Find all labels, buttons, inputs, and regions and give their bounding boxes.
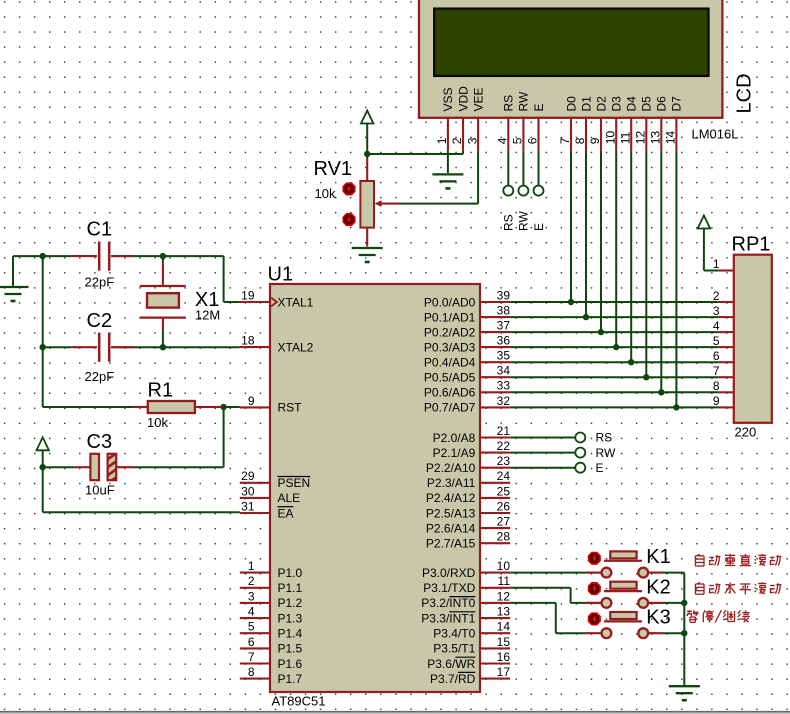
svg-text:4: 4: [496, 137, 510, 144]
svg-text:2: 2: [450, 137, 464, 144]
svg-text:21: 21: [497, 424, 511, 438]
svg-text:10: 10: [603, 131, 617, 145]
svg-text:P3.2/INT0: P3.2/INT0: [421, 596, 475, 610]
svg-text:RW: RW: [517, 211, 531, 231]
svg-text:26: 26: [497, 499, 511, 513]
svg-text:D5: D5: [640, 96, 654, 112]
svg-text:P0.0/AD0: P0.0/AD0: [424, 295, 476, 309]
svg-text:C1: C1: [87, 219, 113, 241]
svg-text:6: 6: [713, 349, 720, 363]
svg-text:10k: 10k: [147, 415, 168, 430]
svg-text:P1.0: P1.0: [278, 566, 303, 580]
svg-text:RS: RS: [596, 431, 613, 445]
svg-text:12: 12: [497, 589, 511, 603]
svg-text:D4: D4: [625, 96, 639, 112]
svg-text:35: 35: [497, 349, 511, 363]
svg-text:AT89C51: AT89C51: [272, 693, 326, 708]
svg-text:29: 29: [241, 469, 255, 483]
svg-text:XTAL2: XTAL2: [278, 340, 314, 354]
svg-text:P1.1: P1.1: [278, 581, 303, 595]
svg-text:39: 39: [497, 288, 511, 302]
svg-text:C2: C2: [87, 310, 113, 332]
svg-text:PSEN: PSEN: [278, 476, 311, 490]
svg-text:2: 2: [248, 574, 255, 588]
svg-text:P3.5/T1: P3.5/T1: [433, 642, 475, 656]
svg-text:14: 14: [497, 620, 511, 634]
svg-text:P3.4/T0: P3.4/T0: [433, 627, 475, 641]
svg-text:19: 19: [241, 288, 255, 302]
svg-text:15: 15: [497, 635, 511, 649]
svg-text:34: 34: [497, 364, 511, 378]
svg-text:LCD: LCD: [733, 73, 755, 113]
svg-text:1: 1: [713, 257, 720, 271]
svg-text:D0: D0: [564, 96, 578, 112]
svg-text:10: 10: [497, 559, 511, 573]
svg-text:P3.6/WR: P3.6/WR: [427, 657, 475, 671]
svg-text:7: 7: [713, 364, 720, 378]
svg-text:11: 11: [498, 574, 511, 588]
svg-text:P0.5/AD5: P0.5/AD5: [424, 371, 476, 385]
svg-text:P3.7/RD: P3.7/RD: [430, 672, 476, 686]
svg-text:33: 33: [497, 379, 511, 393]
svg-text:3: 3: [713, 304, 720, 318]
svg-text:P0.6/AD6: P0.6/AD6: [424, 386, 476, 400]
svg-text:VSS: VSS: [441, 87, 455, 111]
svg-text:R1: R1: [148, 379, 174, 401]
svg-text:RW: RW: [596, 446, 616, 460]
svg-text:1: 1: [435, 137, 449, 144]
svg-text:22pF: 22pF: [85, 369, 115, 384]
svg-text:P2.0/A8: P2.0/A8: [433, 431, 476, 445]
svg-text:12M: 12M: [195, 307, 220, 322]
svg-text:P1.4: P1.4: [278, 627, 303, 641]
svg-text:8: 8: [248, 665, 255, 679]
svg-text:6: 6: [248, 635, 255, 649]
svg-text:18: 18: [241, 334, 255, 348]
svg-text:ALE: ALE: [278, 491, 301, 505]
svg-text:P3.1/TXD: P3.1/TXD: [423, 581, 475, 595]
svg-text:VEE: VEE: [471, 87, 485, 111]
svg-text:D7: D7: [670, 96, 684, 112]
svg-text:P0.7/AD7: P0.7/AD7: [424, 401, 476, 415]
svg-text:13: 13: [649, 131, 663, 145]
svg-text:P1.2: P1.2: [278, 596, 303, 610]
svg-text:P1.3: P1.3: [278, 611, 303, 625]
svg-text:P0.2/AD2: P0.2/AD2: [424, 325, 476, 339]
svg-text:16: 16: [497, 650, 511, 664]
svg-text:P2.7/A15: P2.7/A15: [426, 537, 476, 551]
svg-text:P2.1/A9: P2.1/A9: [433, 446, 476, 460]
svg-text:RV1: RV1: [314, 158, 353, 180]
svg-text:P2.3/A11: P2.3/A11: [427, 476, 476, 490]
svg-text:U1: U1: [268, 264, 294, 286]
svg-text:D3: D3: [610, 96, 624, 112]
svg-text:P0.4/AD4: P0.4/AD4: [424, 356, 476, 370]
svg-text:5: 5: [248, 620, 255, 634]
svg-text:6: 6: [526, 137, 540, 144]
svg-text:10k: 10k: [315, 186, 336, 201]
svg-text:5: 5: [713, 334, 720, 348]
svg-text:RS: RS: [502, 95, 516, 112]
svg-text:D2: D2: [594, 96, 608, 112]
svg-text:17: 17: [497, 665, 511, 679]
svg-text:P2.6/A14: P2.6/A14: [426, 521, 476, 535]
svg-text:24: 24: [497, 469, 511, 483]
svg-text:VDD: VDD: [456, 86, 470, 112]
svg-text:32: 32: [497, 394, 511, 408]
svg-text:K1: K1: [646, 546, 670, 568]
svg-text:4: 4: [713, 319, 720, 333]
svg-text:P2.5/A13: P2.5/A13: [426, 506, 476, 520]
svg-text:RW: RW: [517, 91, 531, 111]
svg-text:RS: RS: [502, 214, 516, 231]
svg-text:7: 7: [248, 650, 255, 664]
svg-text:9: 9: [248, 394, 255, 408]
svg-text:3: 3: [248, 589, 255, 603]
svg-text:P3.0/RXD: P3.0/RXD: [422, 566, 476, 580]
svg-text:22pF: 22pF: [85, 275, 115, 290]
svg-text:E: E: [532, 223, 546, 231]
svg-text:27: 27: [497, 515, 511, 529]
svg-text:13: 13: [497, 605, 511, 619]
svg-text:5: 5: [511, 137, 525, 144]
svg-text:3: 3: [465, 137, 479, 144]
svg-text:12: 12: [634, 131, 648, 145]
svg-text:C3: C3: [87, 431, 113, 453]
svg-text:2: 2: [713, 289, 720, 303]
svg-text:D1: D1: [579, 96, 593, 112]
svg-text:8: 8: [573, 137, 587, 144]
svg-text:9: 9: [713, 394, 720, 408]
svg-text:RST: RST: [278, 401, 303, 415]
svg-text:10uF: 10uF: [85, 483, 115, 498]
svg-text:4: 4: [248, 605, 255, 619]
svg-text:K2: K2: [646, 576, 670, 598]
svg-text:P0.1/AD1: P0.1/AD1: [424, 310, 476, 324]
svg-text:E: E: [596, 461, 604, 475]
svg-text:30: 30: [241, 484, 255, 498]
svg-text:RP1: RP1: [732, 233, 771, 255]
svg-text:22: 22: [497, 439, 511, 453]
svg-text:11: 11: [618, 131, 632, 144]
svg-text:EA: EA: [278, 506, 294, 520]
svg-text:37: 37: [497, 319, 511, 333]
svg-text:P1.6: P1.6: [278, 657, 303, 671]
svg-text:XTAL1: XTAL1: [278, 295, 314, 309]
svg-text:220: 220: [735, 425, 757, 440]
svg-text:P0.3/AD3: P0.3/AD3: [424, 340, 476, 354]
svg-text:28: 28: [497, 530, 511, 544]
svg-text:1: 1: [248, 559, 255, 573]
svg-text:LM016L: LM016L: [692, 126, 739, 141]
svg-text:14: 14: [664, 131, 678, 145]
svg-text:P1.5: P1.5: [278, 642, 303, 656]
svg-text:25: 25: [497, 484, 511, 498]
svg-text:9: 9: [588, 137, 602, 144]
svg-text:D6: D6: [655, 96, 669, 112]
svg-text:P3.3/INT1: P3.3/INT1: [421, 611, 475, 625]
svg-text:7: 7: [558, 137, 572, 144]
svg-text:23: 23: [497, 454, 511, 468]
svg-text:P2.2/A10: P2.2/A10: [426, 461, 476, 475]
svg-text:K3: K3: [646, 607, 670, 629]
svg-text:38: 38: [497, 303, 511, 317]
svg-text:P2.4/A12: P2.4/A12: [426, 491, 476, 505]
svg-text:8: 8: [713, 379, 720, 393]
svg-text:E: E: [532, 103, 546, 111]
svg-text:P1.7: P1.7: [278, 672, 303, 686]
svg-text:36: 36: [497, 334, 511, 348]
svg-text:31: 31: [241, 499, 255, 513]
